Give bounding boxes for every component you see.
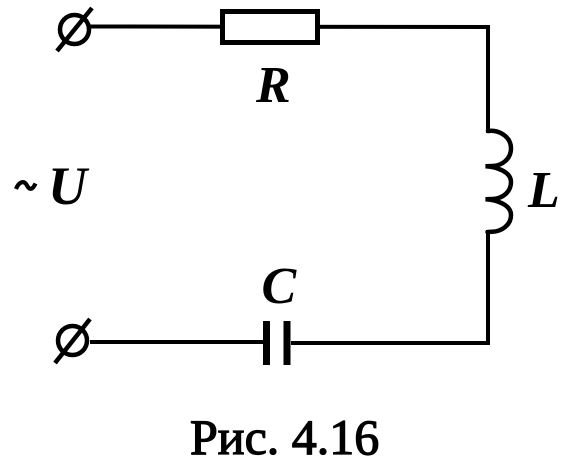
wire top horizontal	[90, 25, 488, 30]
svg-text:R: R	[255, 57, 291, 114]
svg-text:C: C	[262, 258, 298, 315]
terminal top-left	[57, 8, 92, 51]
svg-text:L: L	[527, 162, 560, 219]
wire right vertical lower	[486, 230, 490, 343]
wire bottom right segment	[291, 341, 490, 345]
label ~U source	[16, 156, 90, 216]
capacitor C	[267, 321, 288, 365]
svg-text:Рис. 4.16: Рис. 4.16	[190, 409, 379, 463]
terminal bottom-left	[55, 319, 90, 363]
resistor R	[223, 12, 318, 43]
wire right vertical upper	[486, 25, 490, 133]
svg-text:U: U	[48, 156, 90, 216]
inductor L	[486, 131, 512, 232]
wire bottom left segment	[90, 340, 263, 344]
